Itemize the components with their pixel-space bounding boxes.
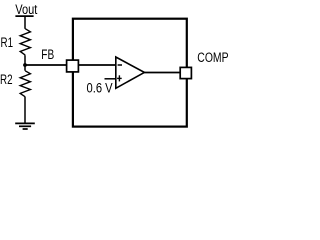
wire R2 to ground (24, 97, 26, 124)
resistor R1 (20, 29, 30, 55)
Vout supply bar (15, 15, 33, 17)
wire FB pin to op-amp inverting input (79, 64, 116, 66)
wire 0.6V reference stub to op-amp non-inverting input (105, 78, 116, 80)
svg-text:COMP: COMP (197, 49, 228, 65)
pin FB square (67, 60, 79, 72)
wire FB junction to FB pin (25, 64, 66, 66)
svg-text:FB: FB (41, 46, 54, 62)
wire Vout bar to R1 (24, 16, 26, 29)
wire R1 to FB junction (24, 55, 26, 65)
wire op-amp output to COMP pin (144, 72, 180, 74)
pin COMP square (180, 67, 191, 78)
node FB junction dot (23, 63, 27, 67)
op-amp minus sign (118, 64, 122, 66)
resistor R2 (20, 71, 30, 97)
op-amp plus sign (117, 75, 122, 81)
svg-text:R1: R1 (1, 34, 14, 50)
IC box U1 (73, 19, 187, 127)
op-amp U2 (116, 57, 145, 88)
svg-text:0.6 V: 0.6 V (87, 81, 114, 96)
svg-text:Vout: Vout (15, 2, 38, 18)
ground (15, 123, 35, 129)
wire FB junction to R2 (24, 65, 26, 71)
svg-text:R2: R2 (0, 71, 13, 87)
